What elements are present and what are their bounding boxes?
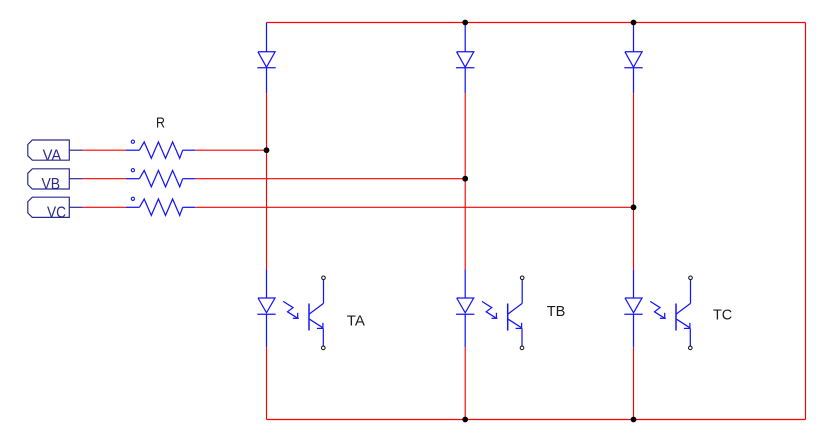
svg-text:TB: TB	[547, 303, 566, 320]
wire VB to column 2	[195, 178, 465, 180]
diode D2	[456, 23, 474, 94]
terminal pin emitter TB	[520, 346, 524, 350]
diode D1	[257, 23, 275, 94]
opto light arrow TB	[482, 301, 498, 318]
wire column 1 bottom	[266, 347, 268, 419]
junction top column 2	[462, 20, 468, 26]
diode D3	[624, 23, 642, 94]
pin stub VA	[69, 149, 83, 151]
pin marker resistor R3	[131, 197, 134, 200]
svg-text:R: R	[156, 115, 165, 132]
terminal pin emitter TA	[322, 346, 326, 350]
phototransistor TC	[676, 280, 691, 347]
svg-text:VA: VA	[43, 147, 62, 164]
svg-text:VC: VC	[47, 204, 66, 221]
svg-text:TC: TC	[713, 307, 732, 324]
wire bottom bus	[267, 419, 806, 421]
wire VA to column 1	[195, 149, 266, 151]
terminal pin collector TB	[520, 276, 524, 280]
wire VC to column 3	[195, 206, 633, 208]
wire right bus	[805, 23, 807, 420]
opto light arrow TA	[283, 301, 299, 318]
phototransistor TA	[309, 280, 324, 347]
junction node C	[631, 204, 637, 210]
resistor R3	[126, 199, 195, 215]
pin stub VB	[69, 178, 83, 180]
wire top bus	[267, 22, 806, 24]
svg-text:VB: VB	[42, 176, 61, 193]
port VA	[28, 140, 70, 164]
wire column 3 bottom	[633, 347, 635, 419]
terminal pin collector TA	[322, 276, 326, 280]
wire column 1 mid	[266, 93, 268, 270]
junction bottom column 3	[631, 417, 637, 423]
terminal pin emitter TC	[689, 346, 693, 350]
opto LED TC	[624, 270, 642, 348]
svg-text:TA: TA	[347, 313, 365, 330]
opto light arrow TC	[650, 301, 666, 318]
pin marker resistor R1	[131, 140, 134, 143]
port VC	[28, 197, 70, 221]
phototransistor TB	[508, 280, 523, 347]
port VB	[28, 169, 70, 193]
opto LED TB	[456, 270, 474, 348]
wire VA to R	[83, 149, 126, 151]
junction node A	[264, 147, 270, 153]
pin marker resistor R2	[131, 169, 134, 172]
opto LED TA	[257, 270, 275, 348]
junction top column 3	[631, 20, 637, 26]
wire column 2 bottom	[464, 347, 466, 419]
junction bottom column 2	[462, 417, 468, 423]
wire VB to R	[83, 178, 126, 180]
resistor R1	[126, 142, 195, 158]
terminal pin collector TC	[689, 276, 693, 280]
wire column 2 mid	[464, 93, 466, 270]
junction node B	[462, 176, 468, 182]
wire VC to R	[83, 206, 126, 208]
pin stub VC	[69, 206, 83, 208]
wire column 3 mid	[633, 93, 635, 270]
resistor R2	[126, 170, 195, 186]
